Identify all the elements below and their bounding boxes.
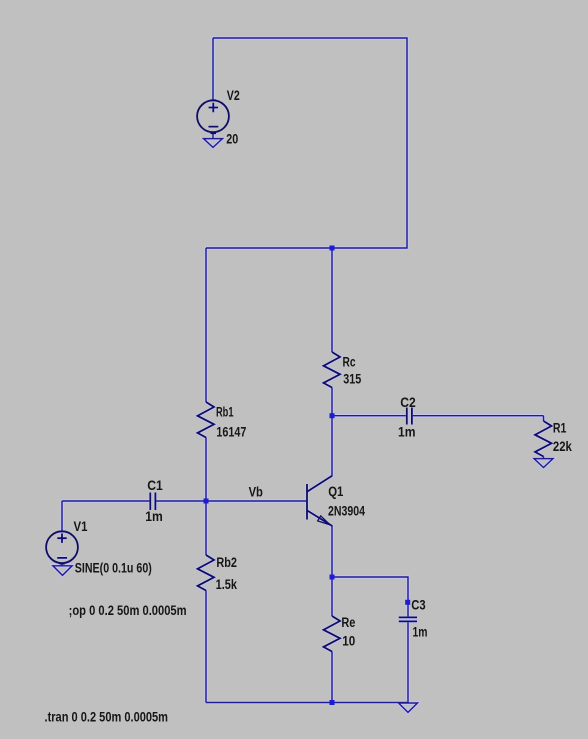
svg-text:C1: C1 [147, 478, 163, 493]
svg-text:V1: V1 [74, 519, 88, 534]
svg-text:Rb1: Rb1 [216, 404, 234, 419]
svg-text:Vb: Vb [249, 485, 263, 500]
svg-text:.tran 0 0.2 50m 0.0005m: .tran 0 0.2 50m 0.0005m [45, 710, 169, 725]
svg-text:Q1: Q1 [328, 484, 344, 499]
svg-text:1m: 1m [398, 425, 416, 440]
svg-text:315: 315 [343, 371, 361, 386]
svg-text:22k: 22k [553, 439, 572, 454]
svg-text:2N3904: 2N3904 [328, 504, 365, 519]
svg-text:C2: C2 [400, 395, 416, 410]
svg-text:1m: 1m [413, 624, 428, 639]
svg-text:C3: C3 [411, 598, 426, 613]
svg-text:Re: Re [341, 615, 355, 630]
svg-text:V2: V2 [227, 88, 240, 103]
svg-text:20: 20 [226, 131, 238, 146]
svg-text:R1: R1 [553, 421, 567, 436]
svg-text:16147: 16147 [216, 424, 246, 439]
svg-text:10: 10 [342, 634, 355, 649]
svg-text:Rc: Rc [343, 355, 356, 370]
svg-text:Rb2: Rb2 [216, 555, 237, 570]
svg-text:1.5k: 1.5k [216, 577, 238, 592]
svg-text:;op 0 0.2 50m 0.0005m: ;op 0 0.2 50m 0.0005m [69, 603, 187, 618]
svg-text:SINE(0 0.1u 60): SINE(0 0.1u 60) [75, 560, 152, 575]
svg-text:1m: 1m [145, 509, 163, 524]
